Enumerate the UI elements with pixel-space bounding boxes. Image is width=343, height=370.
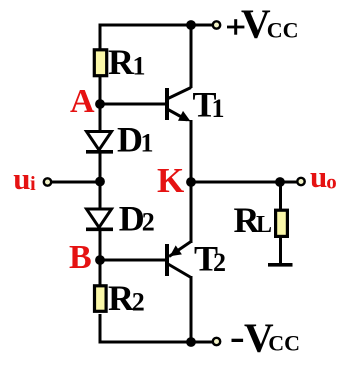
junction RL node [275, 177, 285, 187]
wire top rail from R1 top to collector trunk [100, 25, 191, 49]
wire RL bottom to ground [279, 238, 282, 265]
svg-text:D: D [119, 198, 145, 238]
label R2 [108, 278, 145, 318]
wire node K to T2 emitter [190, 182, 193, 243]
svg-text:2: 2 [213, 248, 226, 277]
label +VCC [227, 1, 299, 47]
label R1 [108, 42, 146, 82]
wire ui terminal to junction [52, 181, 100, 184]
diode D2 [86, 209, 113, 229]
wire RL top [279, 182, 282, 209]
wire node K to output [191, 181, 280, 184]
wire D2 to node B [99, 230, 102, 286]
wire T1 collector to top rail [190, 25, 193, 88]
transistor T2 [167, 242, 191, 278]
label ui [13, 161, 36, 196]
svg-text:1: 1 [212, 94, 225, 123]
resistor RL [276, 210, 288, 236]
label D1 [117, 120, 154, 160]
svg-text:1: 1 [133, 52, 146, 81]
svg-text:i: i [30, 173, 36, 195]
svg-text:o: o [326, 169, 337, 193]
label T2 [194, 238, 226, 278]
node B junction [95, 255, 105, 265]
svg-text:R: R [108, 42, 135, 82]
resistor R2 [95, 286, 107, 312]
svg-text:1: 1 [141, 129, 154, 158]
svg-text:A: A [70, 83, 95, 120]
wire R1 bottom to node A [99, 77, 102, 133]
resistor R1 [94, 50, 106, 76]
ground [268, 263, 293, 267]
svg-text:K: K [157, 161, 184, 200]
wire top rail to +VCC terminal [191, 24, 212, 27]
junction top rail [186, 20, 196, 30]
terminal ui [44, 178, 51, 185]
wire node A to T1 base [100, 103, 165, 106]
wire D1 to ui junction [99, 153, 102, 210]
label D2 [119, 198, 155, 238]
terminal uo [297, 178, 304, 185]
junction ui node [95, 177, 105, 187]
svg-text:u: u [13, 161, 30, 196]
transistor T1 [167, 88, 191, 122]
svg-text:L: L [256, 212, 272, 238]
label T1 [193, 85, 225, 125]
wire node B to T2 base [100, 259, 165, 262]
wire to uo terminal [280, 181, 297, 184]
node A junction [95, 99, 105, 109]
svg-text:u: u [310, 159, 327, 194]
wire R2 bottom to bottom rail [100, 314, 191, 342]
diode D1 [86, 132, 113, 152]
label uo [310, 159, 337, 194]
wire bottom rail to -VCC terminal [191, 341, 212, 344]
terminal +VCC [213, 21, 220, 28]
svg-text:B: B [69, 239, 92, 276]
svg-text:2: 2 [142, 208, 155, 237]
label -VCC [232, 315, 301, 361]
wire T1 emitter to node K [190, 120, 193, 182]
svg-text:2: 2 [132, 288, 145, 317]
svg-text:CC: CC [267, 18, 299, 43]
label RL [234, 200, 273, 240]
terminal -VCC [213, 338, 220, 345]
svg-text:D: D [117, 120, 143, 160]
junction bottom rail [186, 337, 196, 347]
node K junction [186, 177, 196, 187]
svg-text:CC: CC [268, 330, 300, 355]
wire T2 collector to bottom rail [190, 276, 193, 342]
